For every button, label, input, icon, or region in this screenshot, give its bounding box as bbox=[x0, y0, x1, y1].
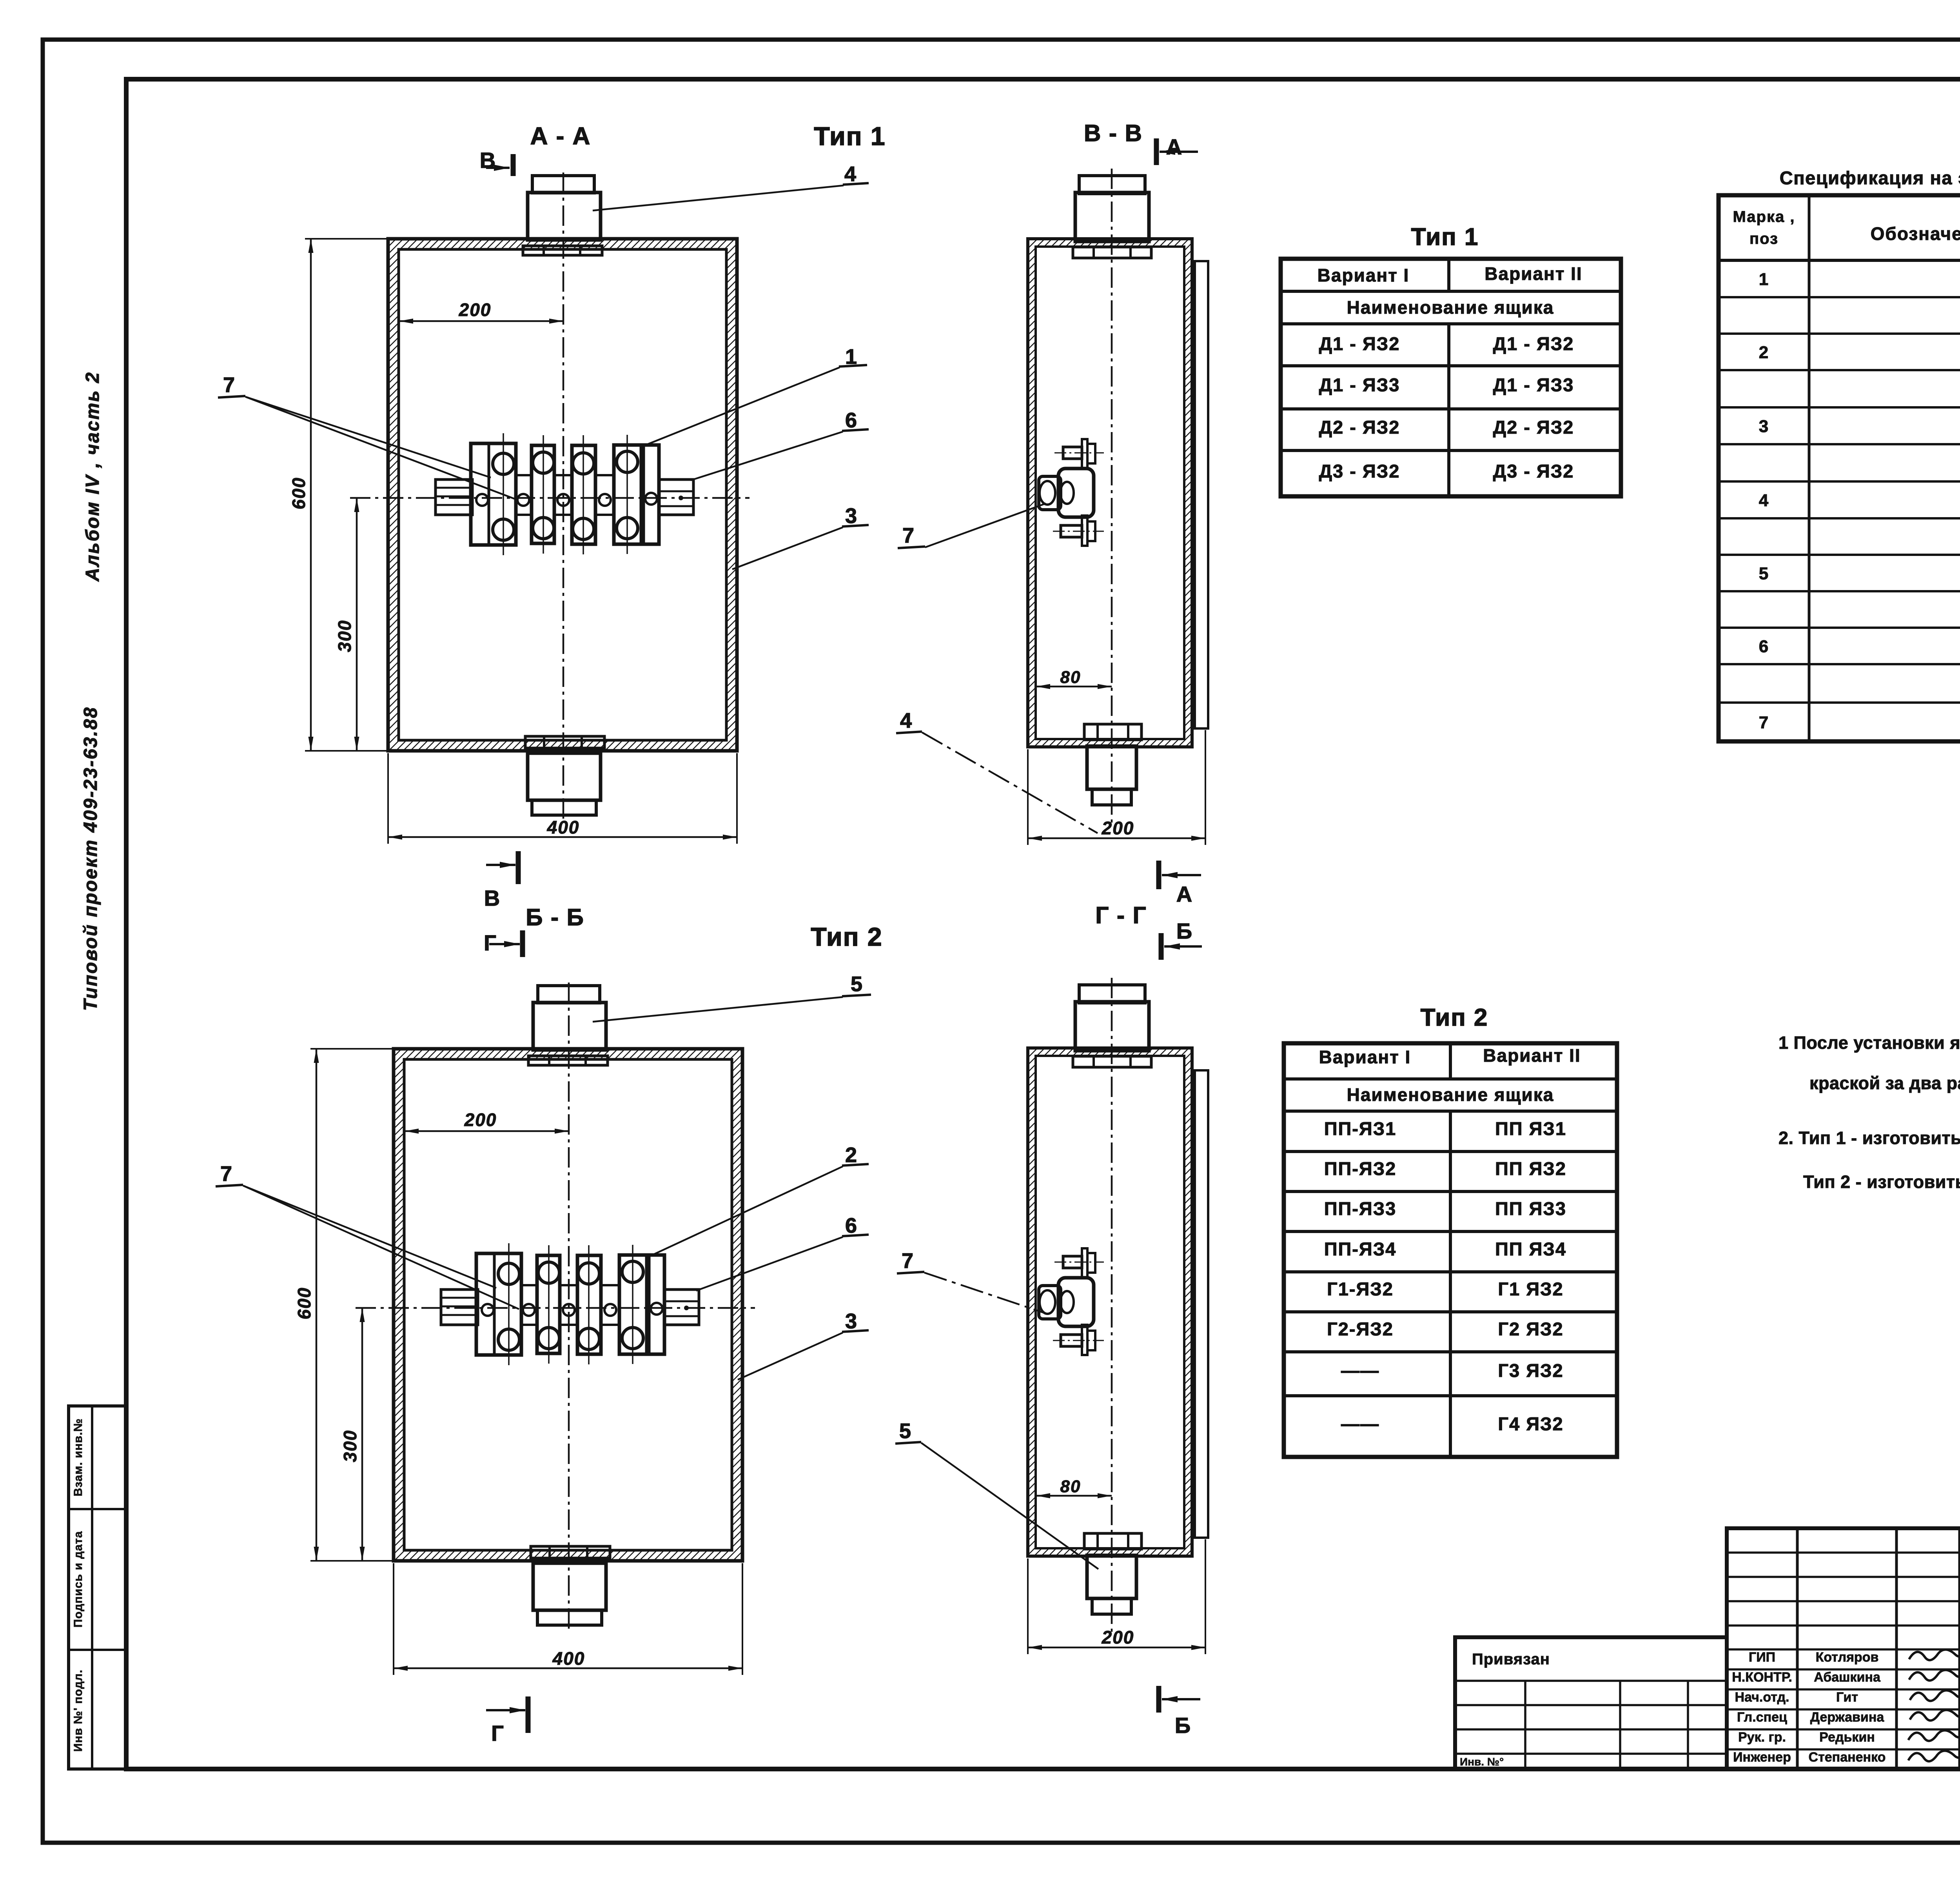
svg-text:ПП ЯЗ2: ПП ЯЗ2 bbox=[1495, 1158, 1566, 1179]
svg-text:ПП ЯЗ1: ПП ЯЗ1 bbox=[1495, 1118, 1566, 1139]
svg-text:Д1 - ЯЗ3: Д1 - ЯЗ3 bbox=[1493, 374, 1574, 395]
svg-text:Д3 - ЯЗ2: Д3 - ЯЗ2 bbox=[1319, 461, 1400, 481]
svg-text:краской за два раза.: краской за два раза. bbox=[1809, 1073, 1960, 1093]
svg-text:Спецификация на электрообору: Спецификация на электрооборудование и ма… bbox=[1780, 167, 1960, 188]
svg-text:Степаненко: Степаненко bbox=[1809, 1750, 1886, 1765]
svg-text:Инженер: Инженер bbox=[1733, 1750, 1791, 1765]
svg-text:7: 7 bbox=[220, 1162, 233, 1186]
svg-text:Г4 ЯЗ2: Г4 ЯЗ2 bbox=[1498, 1413, 1563, 1434]
svg-text:Подпись и дата: Подпись и дата bbox=[72, 1531, 85, 1627]
svg-text:Вариант I: Вариант I bbox=[1319, 1047, 1411, 1067]
svg-text:Гит: Гит bbox=[1836, 1690, 1858, 1705]
svg-text:Инв. №°: Инв. №° bbox=[1460, 1756, 1504, 1768]
svg-text:Г - Г: Г - Г bbox=[1095, 902, 1147, 928]
svg-text:7: 7 bbox=[902, 1249, 914, 1273]
svg-text:Вариант II: Вариант II bbox=[1483, 1045, 1581, 1066]
svg-text:Н.КОНТР.: Н.КОНТР. bbox=[1732, 1670, 1792, 1685]
svg-text:1 После установки ящик окра: 1 После установки ящик окрасить антикорр… bbox=[1779, 1033, 1960, 1053]
svg-text:В: В bbox=[484, 886, 501, 910]
svg-text:Д1 - ЯЗ2: Д1 - ЯЗ2 bbox=[1319, 333, 1400, 354]
svg-text:Привязан: Привязан bbox=[1472, 1651, 1550, 1668]
svg-text:4: 4 bbox=[900, 709, 913, 732]
svg-text:Наименование ящика: Наименование ящика bbox=[1347, 297, 1554, 318]
svg-text:Гл.спец: Гл.спец bbox=[1737, 1710, 1787, 1725]
svg-text:4: 4 bbox=[844, 162, 857, 186]
svg-text:7: 7 bbox=[1759, 713, 1769, 732]
svg-text:Тип 2 - изготовить 6 шт: Тип 2 - изготовить 6 шт для варианта I и bbox=[1803, 1172, 1960, 1192]
svg-text:Б: Б bbox=[1175, 1713, 1191, 1738]
svg-text:300: 300 bbox=[334, 620, 355, 652]
svg-text:Типовой проект 409-23-63.88: Типовой проект 409-23-63.88 bbox=[80, 707, 101, 1011]
svg-text:200: 200 bbox=[1102, 818, 1134, 838]
svg-text:Инв №' подл.: Инв №' подл. bbox=[72, 1669, 85, 1752]
svg-text:1: 1 bbox=[1759, 270, 1769, 289]
svg-text:ПП ЯЗ3: ПП ЯЗ3 bbox=[1495, 1198, 1566, 1219]
svg-text:А: А bbox=[1176, 882, 1193, 906]
svg-text:600: 600 bbox=[289, 477, 309, 510]
svg-text:Г2 ЯЗ2: Г2 ЯЗ2 bbox=[1498, 1319, 1563, 1339]
svg-text:Обозначение: Обозначение bbox=[1871, 223, 1960, 244]
svg-text:200: 200 bbox=[459, 300, 492, 320]
svg-text:3: 3 bbox=[845, 504, 858, 528]
svg-text:Державина: Державина bbox=[1810, 1710, 1885, 1725]
svg-text:Г: Г bbox=[484, 930, 497, 955]
svg-text:Б - Б: Б - Б bbox=[526, 904, 584, 930]
svg-text:2: 2 bbox=[1759, 343, 1769, 362]
svg-text:Нач.отд.: Нач.отд. bbox=[1735, 1690, 1789, 1705]
svg-text:5: 5 bbox=[1759, 564, 1769, 583]
svg-text:Вариант I: Вариант I bbox=[1318, 265, 1410, 285]
svg-text:2: 2 bbox=[845, 1143, 858, 1167]
svg-text:Д2 - ЯЗ2: Д2 - ЯЗ2 bbox=[1493, 417, 1574, 438]
svg-text:Д3 - ЯЗ2: Д3 - ЯЗ2 bbox=[1493, 461, 1574, 481]
svg-text:Д1 - ЯЗ2: Д1 - ЯЗ2 bbox=[1493, 333, 1574, 354]
svg-text:А: А bbox=[1166, 134, 1183, 159]
svg-text:5: 5 bbox=[851, 972, 863, 996]
svg-text:Вариант II: Вариант II bbox=[1485, 263, 1582, 284]
svg-text:4: 4 bbox=[1759, 491, 1769, 510]
svg-text:400: 400 bbox=[547, 817, 580, 837]
svg-text:Тип 2: Тип 2 bbox=[811, 922, 882, 951]
svg-text:5: 5 bbox=[899, 1419, 912, 1443]
svg-text:2. Тип 1 - изготовить по 4: 2. Тип 1 - изготовить по 4 шт для вариан… bbox=[1779, 1128, 1960, 1148]
svg-text:Д2 - ЯЗ2: Д2 - ЯЗ2 bbox=[1319, 417, 1400, 438]
svg-text:ПП-ЯЗ3: ПП-ЯЗ3 bbox=[1324, 1198, 1397, 1219]
svg-text:6: 6 bbox=[845, 1214, 858, 1237]
svg-text:Редькин: Редькин bbox=[1819, 1730, 1875, 1745]
svg-text:Г: Г bbox=[491, 1721, 505, 1745]
svg-text:Абашкина: Абашкина bbox=[1814, 1670, 1881, 1685]
svg-text:——: —— bbox=[1341, 1360, 1379, 1381]
svg-text:поз: поз bbox=[1749, 230, 1779, 247]
svg-text:ПП ЯЗ4: ПП ЯЗ4 bbox=[1495, 1239, 1566, 1259]
svg-text:ПП-ЯЗ4: ПП-ЯЗ4 bbox=[1324, 1239, 1397, 1259]
svg-text:3: 3 bbox=[845, 1310, 858, 1333]
svg-text:В: В bbox=[480, 148, 496, 173]
svg-text:Г1-ЯЗ2: Г1-ЯЗ2 bbox=[1327, 1279, 1394, 1299]
svg-text:Тип 2: Тип 2 bbox=[1421, 1004, 1488, 1031]
svg-text:В - В: В - В bbox=[1084, 120, 1143, 146]
svg-text:Тип 1: Тип 1 bbox=[814, 122, 886, 151]
svg-text:Г2-ЯЗ2: Г2-ЯЗ2 bbox=[1327, 1319, 1394, 1339]
svg-text:6: 6 bbox=[1759, 637, 1769, 656]
svg-text:7: 7 bbox=[902, 524, 915, 547]
svg-text:400: 400 bbox=[552, 1648, 585, 1669]
svg-text:6: 6 bbox=[845, 409, 858, 432]
svg-text:Г3 ЯЗ2: Г3 ЯЗ2 bbox=[1498, 1360, 1563, 1381]
svg-text:Взам. инв.№: Взам. инв.№ bbox=[72, 1418, 85, 1497]
svg-text:Альбом IV , часть 2: Альбом IV , часть 2 bbox=[82, 371, 103, 582]
svg-text:Рук. гр.: Рук. гр. bbox=[1738, 1730, 1786, 1745]
svg-text:ГИП: ГИП bbox=[1749, 1650, 1775, 1665]
svg-text:Тип 1: Тип 1 bbox=[1411, 223, 1479, 251]
svg-text:ПП-ЯЗ2: ПП-ЯЗ2 bbox=[1324, 1158, 1397, 1179]
svg-text:Наименование ящика: Наименование ящика bbox=[1347, 1084, 1554, 1105]
svg-text:Б: Б bbox=[1176, 919, 1193, 943]
svg-text:А - А: А - А bbox=[530, 123, 591, 150]
svg-text:3: 3 bbox=[1759, 417, 1769, 436]
svg-text:——: —— bbox=[1341, 1413, 1379, 1434]
svg-text:80: 80 bbox=[1060, 668, 1081, 687]
svg-text:ПП-ЯЗ1: ПП-ЯЗ1 bbox=[1324, 1118, 1397, 1139]
svg-text:Котляров: Котляров bbox=[1816, 1650, 1879, 1665]
svg-text:Марка ,: Марка , bbox=[1733, 208, 1795, 225]
svg-text:Д1 - ЯЗ3: Д1 - ЯЗ3 bbox=[1319, 374, 1400, 395]
svg-text:Г1 ЯЗ2: Г1 ЯЗ2 bbox=[1498, 1279, 1563, 1299]
svg-text:7: 7 bbox=[223, 373, 236, 397]
